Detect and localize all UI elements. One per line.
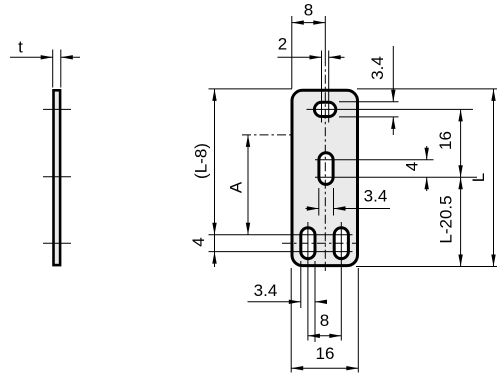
svg-text:A: A — [226, 181, 245, 193]
svg-text:L-20.5: L-20.5 — [437, 195, 456, 243]
dimension 3.4 top-right arrows — [391, 90, 395, 102]
dimension (L-8) and 4 left line — [214, 89, 216, 267]
svg-text:8: 8 — [320, 311, 329, 330]
dimension t arrows — [41, 55, 53, 59]
svg-text:2: 2 — [278, 35, 287, 54]
top hole horizontal centerline — [307, 108, 474, 110]
top slot hole — [314, 102, 335, 116]
side view tick bottom holes centerline — [43, 242, 71, 244]
dimension 3.4 middle lines — [306, 208, 319, 210]
side view tick top hole centerline — [43, 108, 71, 110]
middle hole upper arc-center extension line — [315, 159, 434, 161]
dimension 8 top line — [292, 22, 326, 24]
dimension L-20.5 arrows — [458, 177, 462, 189]
svg-text:4: 4 — [189, 237, 208, 246]
dimension 8 top extension lines — [291, 16, 293, 89]
bottom holes upper arc-center extension line — [209, 234, 353, 236]
dimension 3.4 top-right lines — [392, 46, 394, 102]
plate left edge bottom extension line — [290, 268, 292, 373]
dimension 16 right line — [460, 109, 462, 177]
svg-text:16: 16 — [436, 131, 455, 150]
dimension 8 bottom line — [308, 335, 341, 337]
dimension L line — [493, 89, 495, 267]
dimension L-20.5 line — [460, 177, 462, 266]
svg-text:3.4: 3.4 — [254, 281, 278, 300]
bottom holes lower arc-center extension line — [209, 251, 353, 253]
bottom left hole vertical centerline extension — [307, 222, 309, 341]
bottom left hole right edge extension line — [314, 261, 316, 342]
dimension t extension lines — [52, 50, 54, 88]
svg-text:16: 16 — [316, 344, 335, 363]
dimension 2 extension lines (slot arc centers) — [321, 51, 323, 123]
dimension 8 top arrows — [292, 20, 304, 24]
dimension 3.4 middle arrows — [307, 206, 319, 210]
dimension 4 left arrow — [212, 252, 216, 264]
dimension 4 right arrows — [425, 148, 429, 160]
middle hole lower arc-center extension line — [315, 176, 477, 178]
side view plate body — [54, 90, 61, 265]
svg-text:3.4: 3.4 — [368, 56, 387, 80]
dimension 8 bottom arrows — [308, 334, 320, 338]
bottom right hole vertical centerline extension — [340, 222, 342, 341]
svg-text:3.4: 3.4 — [364, 187, 388, 206]
dimension 2 lines — [278, 56, 322, 58]
side view tick middle hole centerline — [43, 176, 71, 178]
top extension line at plate top edge — [209, 88, 293, 90]
main vertical centerline — [324, 57, 326, 271]
dimension 3.4 top-right extension lines — [339, 101, 399, 103]
dimension 2 arrows — [310, 55, 322, 59]
svg-text:(L-8): (L-8) — [191, 143, 210, 179]
dimension 4 right lines — [426, 146, 428, 160]
node A phantom centerline — [242, 134, 294, 136]
dimension 16 bottom line — [291, 367, 358, 369]
bottom left hole left edge extension line — [300, 261, 302, 308]
dimension L arrows — [491, 89, 495, 101]
plate right edge bottom extension line — [357, 268, 359, 373]
svg-text:t: t — [18, 38, 23, 57]
dimension 3.4 bottom lines — [248, 301, 301, 303]
bottom holes horizontal centerline — [282, 242, 357, 244]
dimension 3.4 middle extension lines — [318, 188, 320, 216]
dimension t lines — [10, 56, 53, 58]
dimension (L-8) arrows — [212, 89, 216, 101]
bottom left slot hole — [301, 228, 315, 259]
dimension 16 right arrows — [458, 109, 462, 121]
bottom extension line at plate bottom edge — [356, 266, 497, 268]
dimension 16 bottom arrows — [291, 366, 303, 370]
svg-text:8: 8 — [304, 1, 313, 20]
dimension 3.4 bottom arrows — [289, 300, 301, 304]
svg-text:4: 4 — [403, 162, 422, 171]
front view plate body — [292, 90, 358, 265]
svg-text:L: L — [469, 173, 488, 182]
bottom right slot hole — [334, 228, 348, 259]
middle slot hole — [319, 153, 333, 185]
dimension A arrows — [246, 135, 250, 147]
dimension A line — [247, 135, 249, 235]
